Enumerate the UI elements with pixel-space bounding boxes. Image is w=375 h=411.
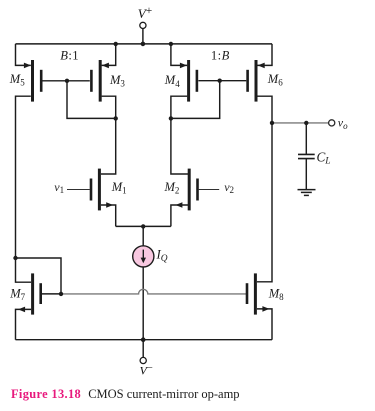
node top rail at M4 source	[169, 42, 173, 46]
wire left rail upper (rail to M5 source)	[16, 44, 31, 66]
transistor M3 channel bar	[99, 60, 102, 102]
wire M4 source from rail	[171, 44, 187, 66]
wire gray output line to vo	[272, 122, 329, 124]
transistor M4 channel bar	[187, 60, 190, 102]
svg-text:Figure 13.18: Figure 13.18	[11, 387, 81, 401]
wire left diode link (M3 gate to M3 drain)	[67, 81, 116, 119]
transistor M3 gate bar	[90, 70, 93, 92]
transistor M1 gate bar	[90, 179, 93, 201]
wire IQ to bottom rail	[142, 267, 144, 340]
svg-text:CMOS current-mirror op-amp: CMOS current-mirror op-amp	[88, 387, 239, 401]
node output at M6 drain	[270, 121, 274, 125]
transistor M1 channel bar	[98, 169, 101, 211]
wire right diode link (M4 gate to M4 drain)	[171, 81, 220, 119]
wire tail to IQ source	[142, 226, 144, 245]
wire gray mirror gate line M7 to M8 with hop	[61, 289, 246, 294]
arrow M7 source (points left away from bar)	[18, 307, 25, 313]
arrow M3 source (points left into bar)	[102, 63, 109, 69]
wire M6 source from rail end	[257, 44, 272, 66]
node M4 drain junction	[169, 116, 173, 120]
current source IQ	[133, 246, 154, 267]
wire M8 source to bottom rail	[257, 309, 272, 340]
wire CL to ground	[305, 159, 307, 190]
transistor M2 channel bar	[188, 169, 191, 211]
wire M5-M3 gate line	[43, 80, 90, 82]
wire V+ stem	[142, 29, 144, 44]
node CL tap	[304, 121, 308, 125]
wire top rail	[16, 43, 273, 45]
wire M7 source to bottom rail	[16, 309, 32, 339]
wire M2 source to tail	[171, 205, 188, 226]
node tail junction	[141, 224, 145, 228]
node bottom rail at V-	[141, 337, 146, 342]
node top rail at V+	[141, 42, 146, 47]
arrow M8 source (points right away from bar)	[262, 306, 269, 312]
wire v2 gate lead	[199, 189, 220, 191]
ground	[298, 190, 316, 196]
node M5-M3 gate junction	[65, 79, 69, 83]
wire bottom rail	[16, 339, 273, 341]
arrow M5 source (points right into bar)	[24, 63, 31, 69]
arrow M6 source (points left into bar)	[258, 63, 265, 69]
transistor M6 gate bar	[246, 70, 249, 92]
transistor M2 gate bar	[196, 179, 199, 201]
transistor M5 gate bar	[40, 70, 43, 92]
terminal V-	[140, 357, 146, 363]
terminal vo	[329, 120, 335, 126]
node left rail M7 gate tap	[13, 256, 17, 260]
wire M6 drain down right rail to M8 drain	[257, 96, 272, 282]
wire M5 drain to left rail long run	[16, 96, 32, 282]
wire V- stem	[142, 340, 144, 358]
transistor M6 channel bar	[255, 60, 258, 102]
wire tail common source line	[116, 225, 171, 227]
wire M3 source from rail	[102, 44, 116, 66]
wire M3 drain down to M1 drain	[101, 96, 116, 174]
arrow M4 source (points right into bar)	[180, 63, 187, 69]
svg-text:B:1: B:1	[60, 49, 79, 63]
transistor M7 gate bar	[39, 283, 42, 304]
node top rail at M3 source	[114, 42, 118, 46]
node M4-M6 gate junction	[218, 79, 222, 83]
arrow M1 source (points right away from bar)	[106, 202, 113, 208]
terminal V+	[140, 22, 146, 28]
svg-text:1:B: 1:B	[211, 49, 230, 63]
wire v1 gate lead	[67, 189, 90, 191]
wire M4 drain down to M2 drain	[171, 96, 188, 174]
wire M4-M6 gate line	[198, 80, 246, 82]
node M7 gate junction	[59, 292, 63, 296]
transistor M7 channel bar	[31, 273, 34, 314]
wire CL branch from output node	[305, 123, 307, 154]
transistor M8 gate bar	[246, 283, 249, 304]
wire M7 gate lead	[42, 293, 61, 295]
wire M7 gate to left rail link	[16, 258, 62, 294]
arrow M2 source (points left away from bar)	[175, 202, 182, 208]
transistor M8 channel bar	[254, 273, 257, 314]
transistor M4 gate bar	[196, 70, 199, 92]
node M3 drain junction	[114, 116, 118, 120]
wire M1 source to tail	[101, 205, 116, 226]
capacitor CL plates	[298, 154, 315, 158]
transistor M5 channel bar	[31, 60, 34, 102]
